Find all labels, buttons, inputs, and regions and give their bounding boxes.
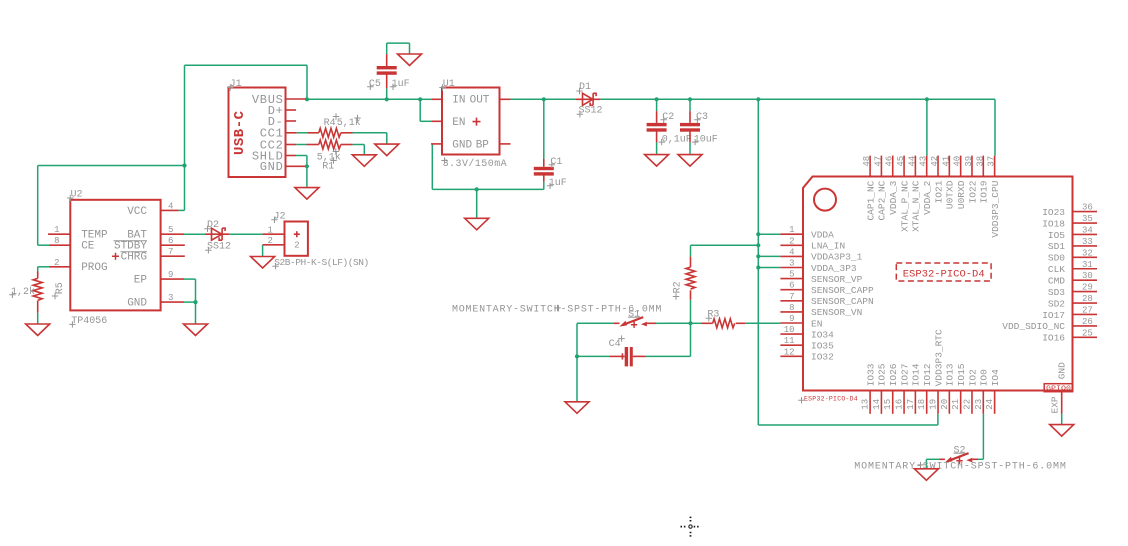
wire to ESP pin 1 bbox=[758, 233, 780, 235]
svg-text:1uF: 1uF bbox=[549, 178, 567, 189]
wire into U1 EN pin bbox=[420, 120, 431, 122]
ground for R4 bbox=[375, 144, 399, 156]
junction at J1 VBUS bbox=[305, 97, 309, 101]
wire into U1 GND pin bbox=[431, 143, 432, 145]
wire to ESP pin 3 bbox=[758, 267, 780, 269]
diode D2 SS12 bbox=[205, 228, 229, 240]
U2 pin 3 GND bbox=[161, 301, 184, 303]
svg-text:8: 8 bbox=[54, 236, 59, 246]
svg-text:EN: EN bbox=[452, 117, 465, 129]
svg-text:TP4056: TP4056 bbox=[71, 316, 107, 327]
svg-text:IO26: IO26 bbox=[888, 363, 899, 386]
wire down to ESP pin 43 bbox=[926, 99, 928, 155]
svg-text:1,2k: 1,2k bbox=[11, 286, 35, 298]
switch S2 momentary bbox=[939, 445, 978, 464]
wire C5 gnd horizontal bbox=[387, 42, 410, 44]
wire J2 pin2 down bbox=[262, 245, 264, 257]
svg-text:29: 29 bbox=[1082, 283, 1093, 293]
J2 pin 1 bbox=[263, 233, 285, 235]
resistor R1 leads bbox=[307, 144, 319, 146]
ESP32 pin 9 EN bbox=[780, 322, 803, 324]
wire to ESP pin 4 bbox=[758, 255, 780, 257]
wire S1 to EN node 2 bbox=[667, 322, 691, 324]
svg-text:CLK: CLK bbox=[1048, 264, 1065, 275]
ESP32 pin 26 VDD_SDIO_NC bbox=[1073, 325, 1098, 327]
svg-text:IO19: IO19 bbox=[979, 180, 990, 203]
svg-text:SD3: SD3 bbox=[1048, 287, 1065, 298]
svg-text:1: 1 bbox=[789, 225, 794, 235]
J1 pin D+ bbox=[286, 109, 297, 111]
ESP32 pin 48 CAP1_NC bbox=[869, 156, 871, 177]
svg-text:VCC: VCC bbox=[127, 206, 147, 218]
svg-text:35: 35 bbox=[1082, 214, 1093, 224]
ESP32 pin 8 SENSOR_VN bbox=[780, 311, 803, 313]
svg-text:9: 9 bbox=[789, 314, 794, 324]
svg-text:EXP: EXP bbox=[1050, 396, 1061, 413]
svg-text:D2: D2 bbox=[207, 220, 219, 231]
svg-text:D1: D1 bbox=[579, 82, 591, 93]
svg-text:1uF: 1uF bbox=[392, 79, 410, 90]
svg-text:27: 27 bbox=[1082, 305, 1093, 315]
svg-text:VDD_SDIO_NC: VDD_SDIO_NC bbox=[1002, 321, 1065, 332]
svg-text:26: 26 bbox=[1082, 317, 1093, 327]
U2 pin 7 CHRG bbox=[161, 255, 185, 257]
wire SHLD down bbox=[306, 156, 308, 167]
resistor R3 leads bbox=[702, 322, 713, 324]
svg-text:21: 21 bbox=[951, 399, 961, 410]
U2 pin 8 CE bbox=[50, 244, 71, 246]
svg-text:PROG: PROG bbox=[81, 262, 107, 274]
wire D2 to J2 pin1 bbox=[230, 233, 263, 235]
svg-text:2: 2 bbox=[54, 258, 59, 268]
capacitor C1 bbox=[534, 167, 554, 170]
svg-text:XTAL_P_NC: XTAL_P_NC bbox=[899, 180, 910, 232]
wire VBUS vertical to top loop bbox=[306, 65, 308, 99]
wire EN node to R3 bbox=[691, 322, 702, 324]
ESP32 pin 18 IO12 bbox=[926, 391, 928, 414]
wire to gnd symbol bbox=[476, 189, 478, 218]
svg-text:IO15: IO15 bbox=[956, 363, 967, 386]
wire to ESP pin37 drop bbox=[927, 98, 995, 100]
IC ESP32-PICO-D4 bbox=[803, 177, 1073, 391]
ESP32 pin 21 IO15 bbox=[960, 391, 962, 414]
svg-text:13: 13 bbox=[861, 399, 871, 410]
junction VBUS/VCC node bbox=[182, 163, 186, 167]
svg-text:5: 5 bbox=[168, 225, 173, 235]
ESP32 pin 23 IO0 bbox=[982, 391, 984, 414]
svg-text:12: 12 bbox=[784, 347, 795, 357]
svg-text:R5: R5 bbox=[55, 282, 66, 294]
J1 pin D- bbox=[286, 120, 297, 122]
ground below R5 bbox=[26, 324, 50, 336]
svg-text:SENSOR_CAPN: SENSOR_CAPN bbox=[811, 296, 874, 307]
svg-text:SD2: SD2 bbox=[1048, 298, 1065, 309]
svg-text:IO2: IO2 bbox=[967, 369, 978, 386]
U2 pin 5 BAT bbox=[161, 233, 184, 235]
svg-text:39: 39 bbox=[964, 156, 974, 167]
capacitor C5 bbox=[377, 66, 397, 69]
wire R4 to gnd bbox=[353, 132, 387, 134]
ESP32 pin 40 U0RXD bbox=[960, 156, 962, 177]
ESP32 pin 13 IO33 bbox=[869, 391, 871, 414]
svg-text:17: 17 bbox=[906, 399, 916, 410]
wire C4 up to EN node bbox=[690, 323, 692, 356]
svg-text:CAP1_NC: CAP1_NC bbox=[865, 180, 876, 220]
svg-text:20: 20 bbox=[940, 399, 950, 410]
svg-text:R4: R4 bbox=[324, 118, 336, 129]
wire J1 SHLD bbox=[296, 155, 307, 157]
ESP32 pin 34 IO5 bbox=[1073, 233, 1098, 235]
svg-text:EP: EP bbox=[134, 274, 148, 286]
ESP32 pin 43 VDDA_2 bbox=[926, 156, 928, 177]
wire 5V rail C5 to U1 bbox=[387, 98, 421, 100]
wire down to C1 bbox=[543, 99, 545, 159]
svg-text:4: 4 bbox=[789, 247, 794, 257]
resistor R5 leads bbox=[37, 272, 39, 279]
ground below EXP bbox=[1050, 425, 1074, 437]
svg-text:U0RXD: U0RXD bbox=[956, 180, 967, 209]
ESP32 pin 6 SENSOR_CAPP bbox=[780, 289, 803, 291]
ESP32 pin 42 IO21 bbox=[937, 156, 939, 177]
ESP32 pin EXP GND bbox=[1061, 392, 1063, 414]
svg-text:LNA_IN: LNA_IN bbox=[811, 241, 845, 252]
svg-text:3: 3 bbox=[168, 293, 173, 303]
svg-text:IO33: IO33 bbox=[865, 363, 876, 386]
U2 pin 4 VCC bbox=[161, 209, 179, 211]
switch S1 momentary bbox=[614, 309, 656, 328]
svg-text:15: 15 bbox=[883, 399, 893, 410]
wire C5 bottom lead bbox=[386, 88, 388, 99]
wire U2 EP bbox=[184, 278, 196, 280]
svg-text:IO23: IO23 bbox=[1042, 207, 1065, 218]
ESP32 pin 47 CAP2_NC bbox=[880, 156, 882, 177]
svg-text:8: 8 bbox=[789, 303, 794, 313]
svg-text:41: 41 bbox=[941, 156, 951, 167]
ESP32 pin 33 SD1 bbox=[1073, 245, 1098, 247]
svg-text:SENSOR_VP: SENSOR_VP bbox=[811, 274, 863, 285]
ESP32 pin 16 IO27 bbox=[903, 391, 905, 414]
ESP32 thermal pad box bbox=[1044, 384, 1072, 392]
ESP32 pin 7 SENSOR_CAPN bbox=[780, 300, 803, 302]
U2 pin 1 TEMP bbox=[48, 233, 70, 235]
svg-text:SENSOR_CAPP: SENSOR_CAPP bbox=[811, 285, 874, 296]
wire S2 gnd vertical bbox=[925, 459, 927, 469]
wire R2 top lead bbox=[690, 245, 692, 256]
wire U1 gnd rail bbox=[432, 188, 544, 190]
resistor R2 leads bbox=[690, 257, 692, 268]
ESP32 pin 31 CLK bbox=[1073, 268, 1098, 270]
ESP32 pin 27 IO17 bbox=[1073, 313, 1098, 315]
svg-text:30: 30 bbox=[1082, 271, 1093, 281]
resistor R5 1.2k bbox=[33, 278, 42, 300]
junction C4/gnd bbox=[575, 354, 579, 358]
svg-text:BP: BP bbox=[476, 139, 490, 151]
wire into S2 right bbox=[978, 458, 983, 460]
resistor R1 5.1k bbox=[319, 140, 341, 149]
ground below S1 bbox=[565, 402, 589, 414]
wire up to ESP pin 19 bbox=[937, 414, 939, 425]
svg-text:42: 42 bbox=[930, 156, 940, 167]
origin crosshair bbox=[681, 517, 701, 537]
svg-text:44: 44 bbox=[907, 156, 917, 167]
ESP32 pin 29 SD3 bbox=[1073, 291, 1098, 293]
svg-text:IO22: IO22 bbox=[967, 180, 978, 203]
ESP32 pin 3 VDDA_3P3 bbox=[780, 267, 803, 269]
wire EXP to gnd bbox=[1061, 414, 1063, 425]
svg-text:6: 6 bbox=[168, 236, 173, 246]
svg-text:J2: J2 bbox=[274, 211, 286, 222]
wire S1 to EN node bbox=[656, 322, 667, 324]
wire to U2 CE branch vertical bbox=[37, 166, 39, 246]
wire CC2 to R1 bbox=[296, 144, 306, 146]
J1 pin SHLD bbox=[286, 155, 297, 157]
svg-text:IO17: IO17 bbox=[1042, 310, 1065, 321]
svg-text:SS12: SS12 bbox=[207, 242, 231, 253]
svg-text:34: 34 bbox=[1082, 225, 1093, 235]
svg-text:IO18: IO18 bbox=[1042, 218, 1065, 229]
svg-text:R1: R1 bbox=[322, 161, 334, 172]
svg-text:2: 2 bbox=[294, 241, 299, 251]
svg-text:IO0: IO0 bbox=[979, 369, 990, 386]
svg-text:24: 24 bbox=[985, 399, 995, 410]
wire C2 to C3 bbox=[657, 98, 690, 100]
svg-text:IO5: IO5 bbox=[1048, 230, 1065, 241]
svg-text:3: 3 bbox=[789, 259, 794, 269]
J1 pin CC1 bbox=[286, 132, 297, 134]
ESP32 pin 38 IO19 bbox=[982, 156, 984, 177]
svg-text:ESP32-PICO-D4: ESP32-PICO-D4 bbox=[804, 396, 858, 403]
wire to D1 anode bbox=[544, 98, 576, 100]
svg-text:S2B-PH-K-S(LF)(SN): S2B-PH-K-S(LF)(SN) bbox=[274, 257, 369, 268]
svg-text:25: 25 bbox=[1082, 328, 1093, 338]
J2 pin 2 bbox=[263, 244, 285, 246]
svg-text:VDDA_3: VDDA_3 bbox=[888, 180, 899, 215]
ground below S2 bbox=[914, 469, 938, 481]
ground for R1 bbox=[352, 155, 376, 167]
wire ESP pin23 down to S2 bbox=[982, 414, 984, 460]
ESP32 pin 35 IO18 bbox=[1073, 222, 1098, 224]
ground below U2 bbox=[184, 324, 208, 336]
wire to gnd bbox=[576, 356, 578, 401]
svg-text:IN: IN bbox=[452, 95, 465, 107]
svg-text:31: 31 bbox=[1082, 260, 1093, 270]
svg-text:CMD: CMD bbox=[1048, 275, 1065, 286]
svg-text:IO16: IO16 bbox=[1042, 333, 1065, 344]
resistor R4 5.1k bbox=[319, 128, 341, 137]
wire R3 to ESP EN bbox=[745, 322, 780, 324]
svg-text:48: 48 bbox=[862, 156, 872, 167]
svg-text:38: 38 bbox=[975, 156, 985, 167]
junction VDD vertical tap bbox=[756, 97, 760, 101]
ground below U1 bbox=[465, 218, 489, 230]
svg-text:IO27: IO27 bbox=[899, 363, 910, 386]
ESP32 pin 36 IO23 bbox=[1073, 211, 1098, 213]
svg-text:GPIO0: GPIO0 bbox=[1046, 385, 1071, 392]
svg-text:MOMENTARY-SWITCH-SPST-PTH-6.0M: MOMENTARY-SWITCH-SPST-PTH-6.0MM bbox=[854, 462, 1066, 473]
wire VBUS left vertical bbox=[184, 65, 186, 165]
svg-text:C4: C4 bbox=[609, 339, 621, 350]
wire C3 top lead bbox=[689, 99, 691, 111]
junction EN node bbox=[688, 321, 692, 325]
svg-text:IO32: IO32 bbox=[811, 352, 834, 363]
ground above C5 bbox=[398, 54, 422, 66]
svg-text:CHRG: CHRG bbox=[121, 252, 147, 264]
wire 3V3 U1 OUT to C1 bbox=[511, 98, 544, 100]
svg-text:6: 6 bbox=[789, 281, 794, 291]
wire CC1 to R4 bbox=[297, 132, 308, 134]
wire R5 to gnd bbox=[37, 313, 39, 324]
svg-text:U1: U1 bbox=[443, 79, 455, 90]
wire down to U2 VCC bbox=[184, 166, 186, 211]
svg-text:37: 37 bbox=[987, 156, 997, 167]
svg-text:SS12: SS12 bbox=[579, 106, 603, 117]
svg-text:ESP32-PICO-D4: ESP32-PICO-D4 bbox=[903, 269, 985, 281]
svg-text:IO13: IO13 bbox=[945, 363, 956, 386]
svg-text:28: 28 bbox=[1082, 294, 1093, 304]
svg-text:2: 2 bbox=[267, 236, 272, 246]
svg-text:VDDA3P3_1: VDDA3P3_1 bbox=[811, 252, 863, 263]
wire PROG to R5 bbox=[37, 267, 39, 272]
wire U2 PROG bbox=[38, 266, 50, 268]
ESP32 pin 4 VDDA3P3_1 bbox=[780, 255, 803, 257]
diode D1 SS12 bbox=[576, 93, 600, 105]
capacitor C3 bbox=[680, 123, 700, 126]
connector J2 bbox=[263, 211, 369, 269]
wire VDD bottom horizontal bbox=[758, 424, 938, 426]
svg-text:R2: R2 bbox=[673, 281, 684, 293]
J1 pin VBUS bbox=[286, 98, 307, 100]
wire down to C4 bbox=[576, 323, 578, 356]
svg-text:46: 46 bbox=[885, 156, 895, 167]
U1 pin IN bbox=[431, 98, 442, 100]
ESP32 pin 45 XTAL_P_NC bbox=[903, 156, 905, 177]
svg-text:U0TXD: U0TXD bbox=[945, 180, 956, 209]
svg-text:IO21: IO21 bbox=[933, 180, 944, 203]
ESP32 value box bbox=[896, 263, 991, 281]
ESP32 pin 24 IO4 bbox=[994, 391, 996, 414]
svg-text:18: 18 bbox=[917, 399, 927, 410]
wire R1 to gnd bbox=[353, 144, 365, 146]
ground below C3 bbox=[678, 155, 702, 167]
wire R4 gnd vertical bbox=[386, 133, 388, 144]
svg-text:14: 14 bbox=[872, 399, 882, 410]
junction at C3 bbox=[688, 97, 692, 101]
ESP32 pin 46 VDDA_3 bbox=[892, 156, 894, 177]
wire R1 gnd vertical bbox=[363, 145, 365, 155]
svg-text:33: 33 bbox=[1082, 237, 1093, 247]
capacitor C2 bbox=[647, 123, 667, 126]
ESP32 pin 28 SD2 bbox=[1073, 302, 1098, 304]
U1 pin BP bbox=[500, 143, 511, 145]
resistor R4 leads bbox=[307, 132, 319, 134]
junction at C2 bbox=[655, 97, 659, 101]
svg-text:GND: GND bbox=[452, 139, 472, 151]
resistor R3 bbox=[713, 319, 735, 328]
ESP32 pin 32 SD0 bbox=[1073, 256, 1098, 258]
wire S1 left bbox=[577, 322, 614, 324]
svg-text:OUT: OUT bbox=[470, 95, 490, 107]
junction U1 gnd bbox=[475, 187, 479, 191]
svg-text:7: 7 bbox=[168, 247, 173, 257]
wire C5 gnd vertical bbox=[409, 43, 411, 54]
U1 pin GND bbox=[431, 143, 442, 145]
svg-text:43: 43 bbox=[919, 156, 929, 167]
ESP32 pin 37 VDD3P3_CPU bbox=[994, 156, 996, 177]
wire EN tap vertical bbox=[419, 99, 421, 121]
junction U1 EN tap bbox=[418, 97, 422, 101]
U2 pin 2 PROG bbox=[50, 266, 71, 268]
svg-text:2: 2 bbox=[789, 236, 794, 246]
svg-text:VDD3P3_CPU: VDD3P3_CPU bbox=[990, 180, 1001, 237]
svg-text:3.3V/150mA: 3.3V/150mA bbox=[443, 158, 508, 170]
svg-text:VDDA: VDDA bbox=[811, 230, 834, 241]
wire U2 GND to gnd symbol bbox=[195, 302, 197, 324]
U1 pin EN bbox=[431, 120, 442, 122]
U2 pin 6 STDBY bbox=[161, 244, 185, 246]
ESP32 pin 12 IO32 bbox=[780, 355, 803, 357]
svg-text:23: 23 bbox=[974, 399, 984, 410]
wire C4 right bbox=[646, 355, 691, 357]
svg-text:47: 47 bbox=[873, 156, 883, 167]
svg-text:USB-C: USB-C bbox=[232, 110, 248, 155]
wire VDD vertical bbox=[757, 99, 759, 425]
ESP32 pin 20 IO13 bbox=[948, 391, 950, 414]
svg-text:CE: CE bbox=[81, 241, 95, 253]
junction at C1 bbox=[542, 97, 546, 101]
svg-text:J1: J1 bbox=[230, 79, 242, 90]
wire R2 bottom to EN node bbox=[690, 300, 692, 324]
junction ESP pin1 bbox=[756, 232, 760, 236]
svg-text:5: 5 bbox=[789, 270, 794, 280]
capacitor C4 bbox=[609, 335, 646, 366]
ESP32 pin 19 VDD3P3_RTC bbox=[937, 391, 939, 414]
svg-text:GND: GND bbox=[1056, 362, 1067, 379]
svg-text:IO25: IO25 bbox=[877, 363, 888, 386]
ground below C2 bbox=[645, 155, 669, 167]
wire to C4 left bbox=[577, 355, 609, 357]
svg-text:IO4: IO4 bbox=[990, 369, 1001, 386]
wire into U2 VCC pin bbox=[179, 209, 185, 211]
J1 pin CC2 bbox=[286, 144, 297, 146]
wire VBUS top horizontal bbox=[185, 64, 308, 66]
wire to U2 CE branch horizontal bbox=[38, 165, 185, 167]
ESP32 pin 14 IO25 bbox=[880, 391, 882, 414]
wire C5 top to gnd bbox=[386, 43, 388, 54]
junction LNA_IN net bbox=[756, 243, 760, 247]
svg-text:9: 9 bbox=[168, 270, 173, 280]
junction ESP pin3 bbox=[756, 265, 760, 269]
junction pin43 drop bbox=[925, 97, 929, 101]
ESP32 pin 5 SENSOR_VP bbox=[780, 278, 803, 280]
wire J1 GND to gnd symbol bbox=[306, 166, 308, 187]
svg-text:19: 19 bbox=[929, 399, 939, 410]
ESP32 pin 2 LNA_IN bbox=[780, 244, 803, 246]
svg-text:SENSOR_VN: SENSOR_VN bbox=[811, 307, 862, 318]
svg-text:1: 1 bbox=[267, 225, 272, 235]
wire 5V rail J1 to C5 bbox=[307, 98, 387, 100]
svg-text:VDDA_2: VDDA_2 bbox=[922, 180, 933, 215]
wire U2 GND pin bbox=[184, 301, 196, 303]
ESP32 pin 39 IO22 bbox=[971, 156, 973, 177]
svg-text:45: 45 bbox=[896, 156, 906, 167]
junction at C5 bbox=[385, 97, 389, 101]
ESP32 pin 17 IO14 bbox=[914, 391, 916, 414]
ground below J2 pin2 bbox=[251, 257, 275, 269]
svg-text:IO34: IO34 bbox=[811, 329, 834, 340]
svg-text:IO35: IO35 bbox=[811, 341, 834, 352]
ESP32 pin 15 IO26 bbox=[892, 391, 894, 414]
wire S2 left to gnd bbox=[926, 458, 939, 460]
